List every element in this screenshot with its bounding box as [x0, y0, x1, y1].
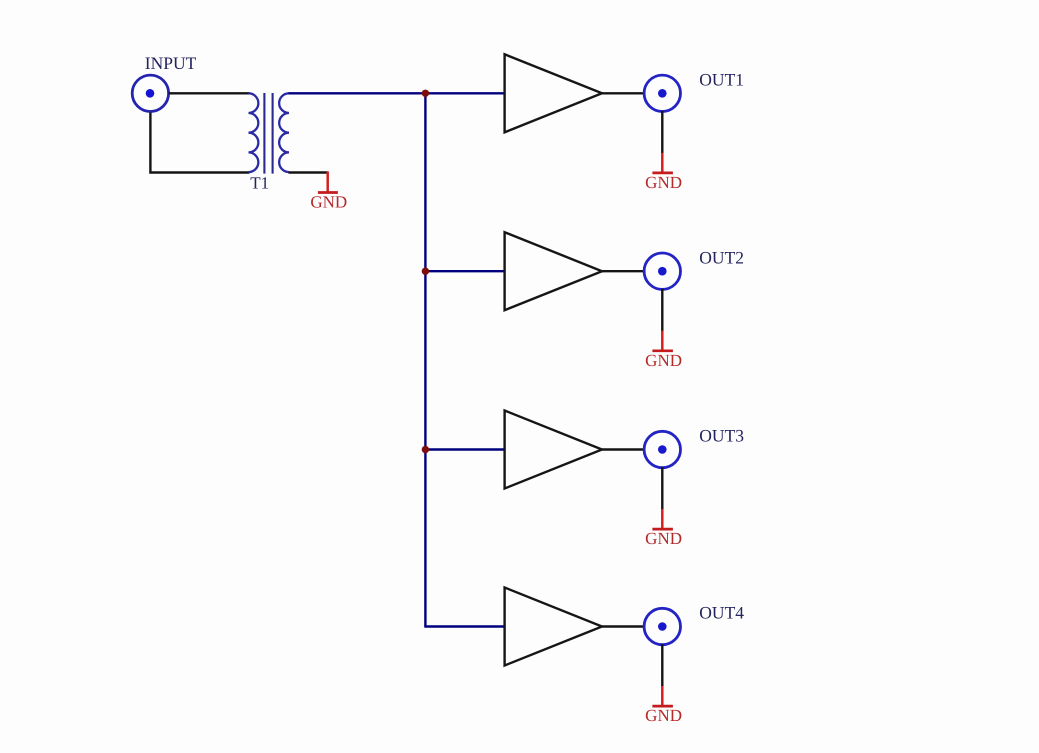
wire amp U2 output [602, 270, 645, 272]
transformer T1 secondary winding [279, 93, 289, 172]
ground GND-2 [652, 331, 673, 351]
svg-text:GND: GND [645, 351, 682, 370]
svg-text:INPUT: INPUT [145, 53, 197, 73]
wire OUT1 to ground [661, 111, 663, 154]
ground GND-T1 [318, 171, 338, 192]
svg-text:OUT1: OUT1 [699, 70, 744, 90]
connector OUT1 [644, 75, 680, 111]
connector J-IN (INPUT BNC) [132, 75, 168, 111]
transformer T1 core [264, 93, 272, 174]
wire secondary top to bus / amp U1 input [289, 92, 506, 94]
amplifier U1 [505, 54, 602, 132]
ground GND-1 [652, 153, 673, 173]
wire secondary bottom to ground [289, 171, 328, 173]
wire amp U3 output [602, 448, 645, 450]
svg-text:GND: GND [310, 192, 347, 211]
wire distribution bus vertical [424, 93, 426, 626]
ground GND-4 [652, 686, 673, 706]
amplifier U2 [505, 232, 602, 310]
svg-text:GND: GND [645, 706, 682, 725]
wire bus tap to amp U2 [425, 270, 505, 272]
connector OUT2 [644, 253, 680, 289]
svg-text:T1: T1 [250, 173, 269, 192]
svg-text:GND: GND [645, 173, 682, 192]
ground GND-3 [652, 509, 673, 529]
node junction 2 [422, 268, 429, 275]
connector OUT4 [644, 608, 680, 644]
wire input top to transformer primary [169, 92, 250, 94]
wire input bottom return to transformer primary [150, 113, 249, 173]
wire bus bottom to amp U4 [424, 625, 505, 627]
wire OUT2 to ground [661, 289, 663, 332]
connector OUT3 [644, 431, 680, 467]
svg-text:GND: GND [645, 529, 682, 548]
wire amp U4 output [602, 625, 645, 627]
transformer T1 primary winding [249, 93, 259, 172]
wire amp U1 output [602, 92, 645, 94]
node junction 1 [422, 90, 429, 97]
wire OUT4 to ground [661, 644, 663, 687]
svg-text:OUT3: OUT3 [699, 426, 744, 446]
amplifier U3 [505, 411, 602, 489]
amplifier U4 [505, 588, 602, 666]
wire OUT3 to ground [661, 467, 663, 510]
svg-text:OUT4: OUT4 [699, 603, 744, 623]
wire bus tap to amp U3 [425, 448, 505, 450]
node junction 3 [422, 446, 429, 453]
svg-text:OUT2: OUT2 [699, 247, 744, 267]
